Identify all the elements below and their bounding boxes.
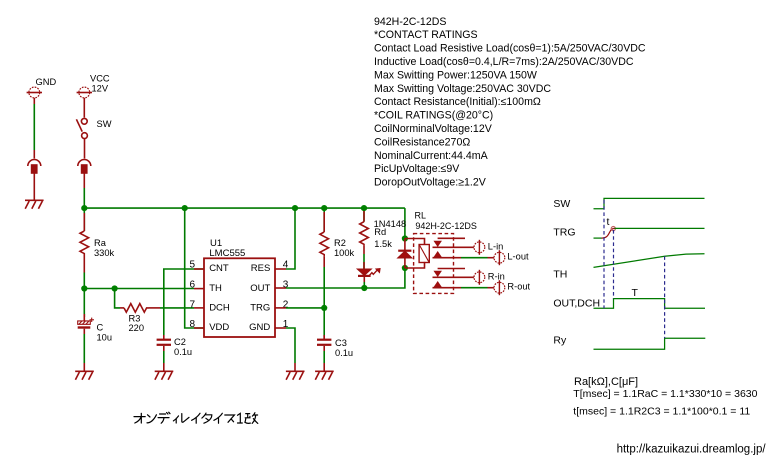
port L-out [494, 250, 505, 265]
svg-text:t[msec] = 1.1R2C3 = 1.1*100*0.: t[msec] = 1.1R2C3 = 1.1*100*0.1 = 11 [573, 405, 750, 417]
wire RES net [286, 208, 295, 269]
svg-text:LMC555: LMC555 [209, 248, 245, 259]
svg-text:L-out: L-out [507, 251, 529, 261]
svg-text:http://kazuikazui.dreamlog.jp/: http://kazuikazui.dreamlog.jp/ [617, 443, 767, 455]
svg-text:TH: TH [209, 283, 222, 294]
wire R3 to DCH [160, 307, 194, 309]
svg-text:TH: TH [553, 269, 567, 281]
svg-text:R-out: R-out [507, 281, 530, 291]
イ [192, 413, 200, 423]
node rail-R2 [321, 205, 327, 211]
waveform Ry [594, 338, 706, 349]
svg-text:CoilResistance270Ω: CoilResistance270Ω [374, 136, 470, 148]
svg-text:L-in: L-in [488, 241, 504, 251]
relay contact L-out line [433, 257, 494, 259]
ィ [173, 416, 178, 423]
guide dashed line 2 [613, 230, 615, 299]
capacitor C electrolytic [78, 289, 94, 335]
svg-text:T[msec] = 1.1RaC = 1.1*330*10: T[msec] = 1.1RaC = 1.1*330*10 = 3630 [573, 388, 757, 400]
node TH-Ra [81, 285, 87, 291]
svg-text:Ra[kΩ],C[μF]: Ra[kΩ],C[μF] [574, 376, 638, 388]
waveform TH ramp [594, 254, 705, 268]
pin stubs U1 right [275, 269, 286, 328]
node rail-Rd [361, 205, 367, 211]
node rail-VDD [182, 205, 188, 211]
port VCC 12V [77, 87, 92, 104]
svg-text:7: 7 [189, 299, 195, 310]
svg-text:3: 3 [283, 280, 289, 291]
svg-text:12V: 12V [92, 84, 109, 94]
オ [134, 413, 145, 423]
LED D1 [358, 262, 380, 282]
svg-text:t: t [607, 216, 610, 228]
svg-text:8: 8 [189, 319, 195, 330]
wire R3 branch [115, 289, 120, 308]
marker TRG threshold [611, 227, 615, 231]
１ [238, 413, 243, 423]
pin stubs U1 left [194, 269, 204, 328]
port GND [27, 87, 42, 104]
svg-text:CNT: CNT [209, 263, 229, 274]
resistor Rd [360, 208, 369, 254]
svg-text:VCC: VCC [90, 74, 110, 84]
wire CNT net [164, 269, 204, 335]
svg-text:Contact Load Resistive Load(co: Contact Load Resistive Load(cosθ=1):5A/2… [374, 43, 646, 55]
svg-text:TRG: TRG [250, 303, 270, 314]
svg-text:C3: C3 [335, 338, 347, 348]
connector pin (VCC side) [78, 160, 91, 189]
relay contact R common [438, 268, 465, 270]
diode 1N4148 [398, 239, 411, 269]
resistor R3 [120, 304, 160, 313]
svg-text:OUT: OUT [250, 283, 270, 294]
wire GND net [33, 104, 35, 150]
svg-text:Max Switting Voltage:250VAC 30: Max Switting Voltage:250VAC 30VDC [374, 83, 551, 95]
port R-in [474, 270, 485, 285]
svg-text:1.5k: 1.5k [374, 239, 392, 249]
wire GND net pin1 [286, 328, 295, 363]
relay datasheet text block [374, 16, 646, 189]
guide dashed line 3 [664, 256, 666, 338]
wire TH net [84, 288, 194, 290]
svg-text:CoilNorminalVoltage:12V: CoilNorminalVoltage:12V [374, 123, 493, 135]
svg-text:NominalCurrent:44.4mA: NominalCurrent:44.4mA [374, 150, 489, 162]
svg-text:C: C [97, 323, 104, 333]
relay RL dashed body [414, 234, 454, 294]
svg-text:10u: 10u [97, 333, 113, 343]
wire R2 to TRG [323, 267, 325, 308]
wire rail right drop [404, 208, 406, 238]
svg-text:RES: RES [251, 263, 271, 274]
svg-text:0.1u: 0.1u [335, 348, 353, 358]
wire VDD vertical [185, 208, 204, 328]
port R-out [494, 280, 505, 295]
connector pin (GND side) [28, 150, 41, 200]
wire LED to OUT [363, 282, 365, 288]
wire VCC to switch [83, 104, 85, 118]
svg-text:100k: 100k [334, 248, 355, 258]
relay contact R-in line [433, 276, 474, 278]
formula block [573, 376, 757, 417]
title オンディレイタイマ1改 (drawn strokes) [134, 412, 258, 423]
resistor Ra [80, 208, 89, 272]
capacitor C3 [317, 308, 331, 351]
svg-text:GND: GND [36, 77, 57, 87]
guide dashed line 1 [603, 200, 605, 308]
svg-text:DCH: DCH [209, 303, 230, 314]
マ [225, 415, 235, 422]
svg-text:Ra: Ra [94, 238, 107, 248]
waveform TRG low [594, 237, 602, 239]
svg-text:TRG: TRG [553, 227, 575, 239]
relay contact L-in line [433, 246, 474, 248]
relay contact L NO [435, 252, 441, 257]
svg-text:Ry: Ry [553, 335, 567, 347]
svg-text:VDD: VDD [209, 322, 229, 333]
ground (pin1 branch) [286, 363, 305, 380]
svg-text:C2: C2 [174, 337, 186, 347]
wire VCC net to rail [83, 188, 85, 208]
デ [158, 412, 170, 423]
waveform SW [594, 198, 705, 208]
wire Rd to LED [363, 254, 365, 269]
node rail-RES [292, 205, 298, 211]
svg-text:6: 6 [189, 280, 195, 291]
resistor R2 [320, 208, 329, 267]
relay coil [405, 239, 429, 269]
svg-text:R-in: R-in [488, 271, 505, 281]
waveform OUT [594, 299, 706, 309]
relay contact L common [438, 237, 465, 239]
svg-text:SW: SW [97, 119, 112, 129]
node coil bottom [402, 265, 408, 271]
svg-text:Inductive Load(cosθ=0.4,L/R=7m: Inductive Load(cosθ=0.4,L/R=7ms):2A/250V… [374, 56, 634, 68]
svg-text:Max Switting Power:1250VA 150W: Max Switting Power:1250VA 150W [374, 69, 537, 81]
relay contact R NC [435, 271, 441, 276]
waveform TRG rise curve [602, 228, 615, 238]
svg-text:OUT,DCH: OUT,DCH [553, 298, 600, 310]
svg-text:0.1u: 0.1u [174, 347, 192, 357]
svg-text:942H-2C-12DS: 942H-2C-12DS [415, 221, 477, 231]
ground (left GND branch) [25, 200, 44, 208]
svg-text:RL: RL [415, 211, 427, 221]
wire Ra to TH node [83, 273, 85, 289]
node TRG junction [321, 305, 327, 311]
svg-text:SW: SW [553, 198, 570, 210]
relay contact R NO [435, 282, 441, 287]
wire +12V rail [84, 207, 405, 209]
node coil top [402, 235, 408, 241]
ground (C3 branch) [315, 363, 334, 380]
capacitor C2 [157, 335, 171, 351]
svg-text:5: 5 [189, 259, 195, 270]
svg-text:R2: R2 [334, 238, 346, 248]
node OUT-LED [361, 285, 367, 291]
改 [245, 413, 258, 424]
wire TRG net [286, 307, 324, 309]
ground (C2 branch) [155, 363, 174, 380]
レ [182, 414, 189, 423]
relay contact R-out line [433, 287, 494, 289]
svg-text:PicUpVoltage:≤9V: PicUpVoltage:≤9V [374, 163, 460, 175]
svg-text:Contact Resistance(Initial):≤1: Contact Resistance(Initial):≤100mΩ [374, 96, 541, 108]
wire C2 to ground [163, 351, 165, 363]
op-amp/timer U1 LMC555 box [204, 258, 275, 337]
relay contact L NC [435, 241, 441, 246]
switch SW [76, 118, 87, 158]
svg-text:942H-2C-12DS: 942H-2C-12DS [374, 16, 446, 28]
svg-text:330k: 330k [94, 248, 115, 258]
イ [214, 413, 222, 423]
node rail-VCC [81, 205, 87, 211]
svg-text:T: T [632, 287, 639, 299]
svg-text:GND: GND [249, 322, 270, 333]
svg-text:*CONTACT RATINGS: *CONTACT RATINGS [374, 29, 478, 41]
タ [202, 413, 212, 423]
svg-text:R3: R3 [129, 314, 141, 324]
svg-text:Rd: Rd [374, 227, 386, 237]
node TH-R3 [112, 285, 118, 291]
wire C to ground [83, 334, 85, 363]
svg-text:*COIL RATINGS(@20°C): *COIL RATINGS(@20°C) [374, 110, 493, 122]
svg-text:220: 220 [129, 323, 145, 333]
wire C3 to ground [323, 351, 325, 363]
svg-text:DoropOutVoltage:≥1.2V: DoropOutVoltage:≥1.2V [374, 177, 487, 189]
port L-in [474, 240, 485, 255]
ground (C branch) [75, 363, 94, 380]
waveform TRG high [615, 227, 705, 229]
ン [147, 415, 156, 423]
wire OUT net [286, 268, 405, 288]
